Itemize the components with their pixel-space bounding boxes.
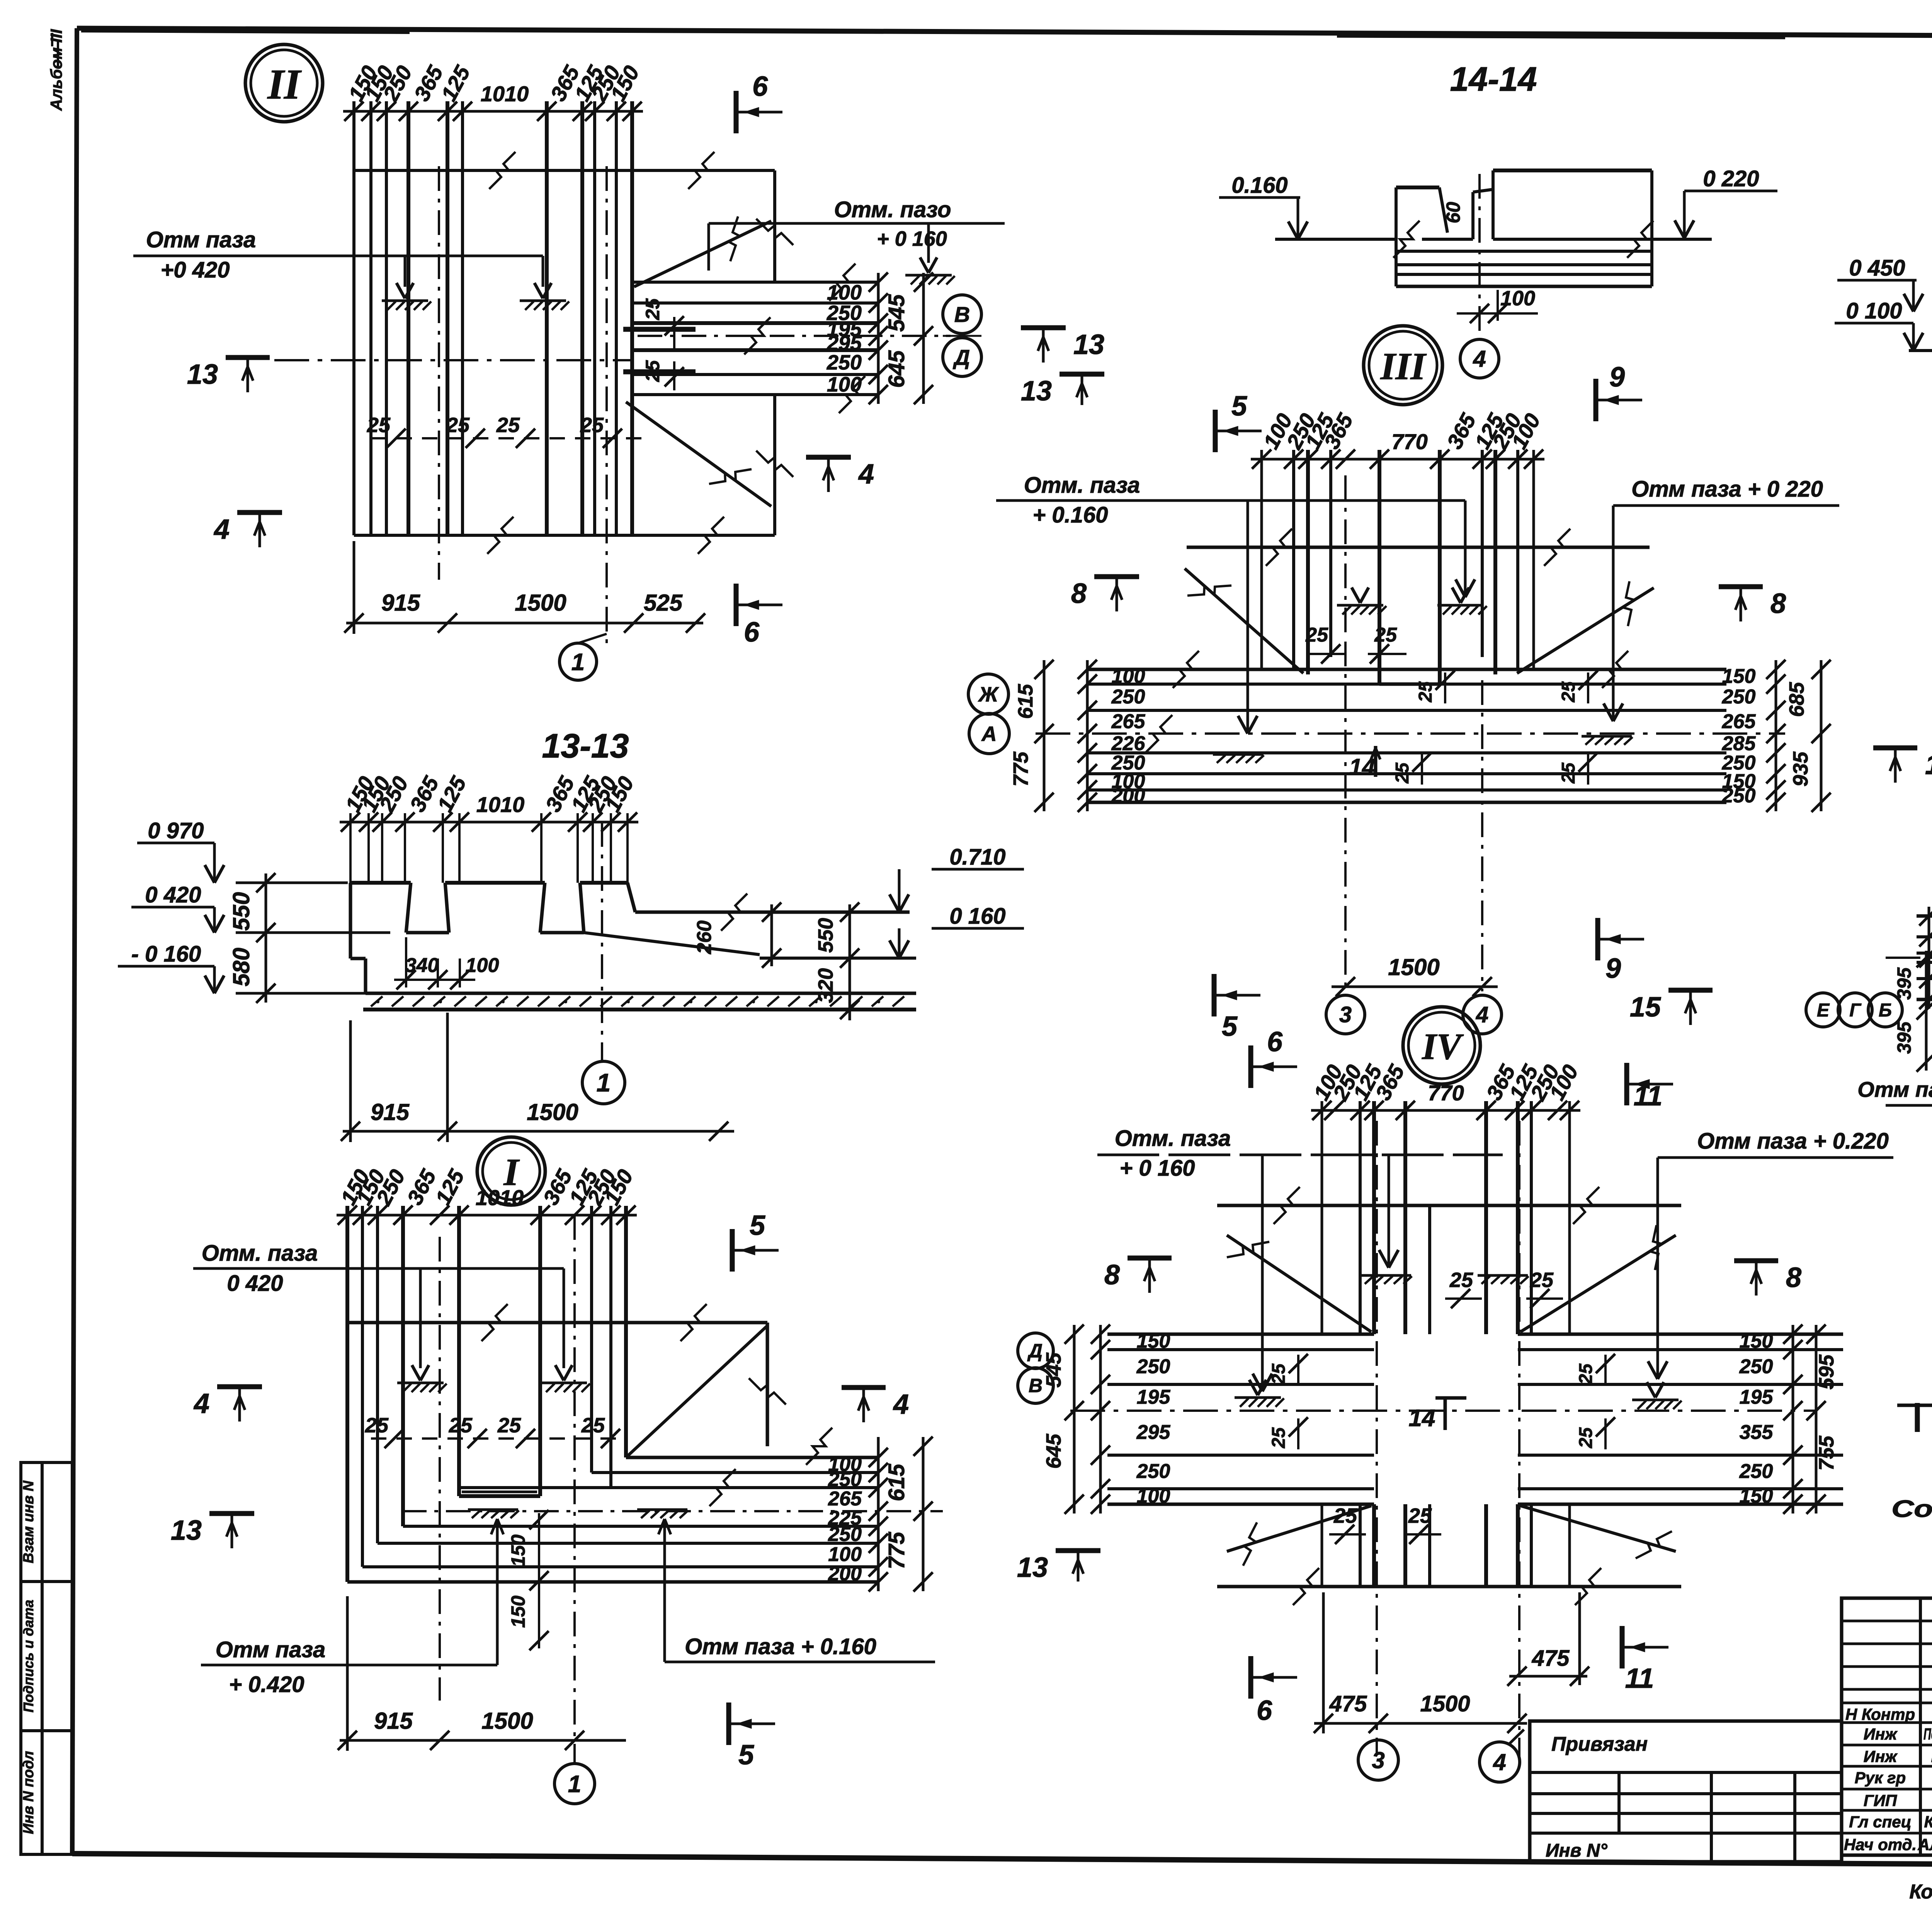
section marks around detail I (217, 1384, 262, 1389)
detail IV boundaries (1217, 1204, 1681, 1207)
svg-text:Н Контр: Н Контр (1845, 1705, 1915, 1723)
svg-text:100: 100 (466, 954, 499, 977)
svg-text:Совместно с данным см: Совместно с данным см л л КЖ-5,8 (1891, 1496, 1932, 1522)
svg-text:25: 25 (642, 298, 663, 320)
svg-text:Ж: Ж (978, 683, 999, 706)
svg-text:Отм паза: Отм паза (216, 1637, 325, 1662)
svg-text:8: 8 (1104, 1260, 1120, 1290)
svg-text:25: 25 (446, 414, 470, 437)
svg-text:+ 0.420: + 0.420 (229, 1672, 304, 1697)
svg-text:195: 195 (1137, 1386, 1171, 1408)
detail I right outer boundary and diagonal (766, 1323, 769, 1446)
svg-text:25: 25 (1408, 1504, 1432, 1527)
svg-text:150: 150 (507, 1595, 529, 1628)
detail V arm axis (1886, 957, 1932, 959)
svg-text:Б: Б (1879, 1000, 1892, 1021)
detail III arm band (1088, 668, 1726, 671)
svg-text:1500: 1500 (1420, 1691, 1470, 1716)
svg-text:+ 0.160: + 0.160 (1032, 502, 1108, 528)
svg-text:595: 595 (1815, 1354, 1838, 1389)
svg-text:340: 340 (405, 954, 439, 977)
svg-text:0.160: 0.160 (1231, 173, 1287, 198)
detail II right boundary (773, 170, 776, 282)
svg-text:4: 4 (893, 1389, 909, 1420)
title block: left attachment box (1530, 1721, 1842, 1862)
section 13-13 profile (350, 881, 411, 885)
svg-text:295: 295 (1136, 1421, 1171, 1444)
svg-text:6: 6 (752, 71, 768, 102)
svg-text:475: 475 (1329, 1691, 1367, 1716)
svg-text:25: 25 (1558, 681, 1579, 703)
svg-text:0 970: 0 970 (148, 818, 204, 843)
svg-text:200: 200 (828, 1563, 862, 1585)
section mark 6 (top) (734, 91, 739, 133)
detail I bottom dims 915/1500 (340, 1739, 626, 1742)
svg-text:1010: 1010 (481, 82, 529, 106)
svg-text:1: 1 (568, 1771, 581, 1798)
svg-text:Рук гр: Рук гр (1855, 1769, 1906, 1787)
svg-text:775: 775 (1009, 751, 1032, 787)
svg-text:5: 5 (1222, 1011, 1238, 1042)
svg-text:Отм паза + 0 220: Отм паза + 0 220 (1631, 477, 1823, 502)
section 13-13 bottom slab with hatching (366, 992, 916, 995)
svg-text:25: 25 (1576, 1427, 1596, 1449)
svg-text:Копир Лавругина: Копир Лавругина (1909, 1881, 1932, 1903)
section mark 6 (bottom) (734, 584, 739, 626)
svg-text:8: 8 (1786, 1262, 1801, 1293)
detail IV grid axes dash-dot (1376, 1121, 1378, 1755)
svg-text:250: 250 (1136, 1460, 1170, 1483)
svg-text:В: В (954, 302, 970, 327)
detail I axis dash-dot verticals (439, 1237, 441, 1701)
svg-text:1500: 1500 (527, 1099, 578, 1125)
detail I arm horizontals (626, 1456, 878, 1459)
svg-text:250: 250 (1739, 1355, 1773, 1378)
svg-text:Е: Е (1817, 1000, 1830, 1021)
grid bubbles 3 and 4 (1358, 1740, 1398, 1780)
detail IV arm bands (1107, 1333, 1374, 1336)
svg-text:525: 525 (644, 590, 683, 616)
svg-text:5: 5 (1231, 391, 1247, 422)
svg-text:13: 13 (171, 1515, 202, 1546)
svg-text:4: 4 (1476, 1002, 1488, 1027)
svg-text:+ 0 160: + 0 160 (1119, 1156, 1195, 1181)
detail II bottom boundary (354, 534, 775, 537)
top border scan smudge (81, 31, 410, 32)
grid bubble 4 (1460, 339, 1499, 378)
svg-text:1500: 1500 (1388, 954, 1439, 980)
detail I hatch marks bottom (468, 1508, 518, 1511)
svg-text:250: 250 (828, 1523, 862, 1546)
detail III right dim columns (1775, 660, 1777, 811)
svg-text:685: 685 (1785, 682, 1808, 717)
svg-text:0 420: 0 420 (227, 1271, 283, 1296)
svg-text:100: 100 (827, 281, 862, 304)
svg-text:Отм паза + 0.160: Отм паза + 0.160 (685, 1634, 876, 1659)
svg-text:14-14: 14-14 (1450, 60, 1537, 98)
svg-text:915: 915 (374, 1708, 413, 1734)
svg-text:Подпись и дата: Подпись и дата (20, 1600, 36, 1713)
svg-text:Отм. паза: Отм. паза (1024, 473, 1140, 498)
svg-text:150: 150 (507, 1534, 529, 1567)
detail V arm horizontals (1917, 914, 1932, 918)
section 13-13 right vertical dims 260/550/320 (770, 904, 773, 966)
svg-text:14: 14 (1409, 1405, 1435, 1432)
svg-text:Инв N°: Инв N° (1546, 1840, 1608, 1861)
svg-text:150: 150 (1137, 1330, 1170, 1352)
detail IV right dim columns (1792, 1325, 1794, 1514)
svg-text:13-13: 13-13 (542, 727, 629, 765)
svg-text:25: 25 (496, 414, 520, 437)
detail II bottom dimension 915/1500/525 (346, 622, 703, 625)
svg-text:Петропавловская: Петропавловская (1923, 1725, 1932, 1743)
detail II right arm horizontal lines (634, 281, 878, 284)
detail IV hatches (1361, 1274, 1411, 1277)
svg-text:550: 550 (814, 918, 837, 953)
svg-text:6: 6 (744, 617, 760, 648)
svg-text:Инж: Инж (1864, 1747, 1898, 1765)
svg-text:25: 25 (1305, 624, 1328, 646)
svg-text:25: 25 (367, 414, 391, 437)
svg-text:265: 265 (1722, 710, 1756, 733)
section marks around detail III (1213, 410, 1218, 452)
svg-text:200: 200 (1111, 785, 1145, 807)
left margin table (21, 1462, 72, 1854)
svg-text:25: 25 (581, 1414, 605, 1437)
svg-text:580: 580 (228, 948, 254, 986)
svg-text:4: 4 (1473, 346, 1486, 372)
svg-text:6: 6 (1257, 1695, 1272, 1726)
svg-text:4: 4 (193, 1388, 209, 1419)
svg-text:770: 770 (1391, 429, 1427, 454)
detail IV label circle (1403, 1007, 1480, 1084)
svg-text:25: 25 (642, 360, 663, 382)
detail I top dimension chain (337, 1214, 637, 1217)
svg-text:Отм. паза: Отм. паза (202, 1241, 318, 1266)
svg-text:1: 1 (597, 1068, 611, 1097)
svg-text:0 420: 0 420 (145, 882, 201, 907)
detail III slot hatches (1352, 587, 1360, 603)
grid axis 1 dash-dot (601, 822, 603, 1061)
detail III top boundary (1187, 546, 1650, 549)
section mark 4 (right of II) (806, 455, 851, 460)
row bubbles D V (1018, 1333, 1053, 1369)
detail III slot axis (1344, 475, 1347, 634)
svg-text:25: 25 (1269, 1427, 1289, 1449)
svg-text:755: 755 (1815, 1435, 1838, 1471)
svg-text:14: 14 (1925, 749, 1932, 780)
svg-text:615: 615 (1014, 684, 1037, 719)
detail III corner diagonals (1185, 569, 1303, 673)
detail I inner U floor (459, 1494, 540, 1498)
svg-text:5: 5 (738, 1740, 754, 1771)
svg-text:Отм паза + 0.220: Отм паза + 0.220 (1697, 1129, 1889, 1154)
svg-text:770: 770 (1428, 1081, 1464, 1105)
svg-text:+ 0 160: + 0 160 (877, 227, 947, 250)
detail I arm axis dash-dot (402, 1510, 943, 1512)
svg-text:5: 5 (750, 1210, 765, 1241)
svg-text:25: 25 (1530, 1268, 1554, 1292)
svg-text:II: II (267, 61, 302, 108)
svg-text:13: 13 (1073, 329, 1104, 360)
svg-text:IV: IV (1422, 1026, 1464, 1067)
section 14-14 ground line (1275, 238, 1396, 241)
detail V arm dim column (1928, 907, 1930, 1009)
detail III bottom dim 1500 (1332, 986, 1498, 988)
detail II corner diagonals (634, 221, 771, 287)
svg-text:25: 25 (365, 1414, 389, 1437)
row bubbles V and D (943, 295, 981, 334)
svg-text:1010: 1010 (476, 792, 525, 817)
svg-text:А: А (981, 722, 997, 746)
svg-text:9: 9 (1605, 953, 1621, 984)
detail II wall plan vertical lines (352, 101, 355, 535)
svg-text:100: 100 (1112, 665, 1145, 688)
svg-text:9: 9 (1609, 362, 1625, 393)
svg-text:25: 25 (449, 1414, 473, 1437)
detail III stem verticals (1292, 450, 1295, 669)
svg-text:475: 475 (1532, 1646, 1570, 1671)
svg-text:13: 13 (1021, 376, 1052, 407)
svg-text:3: 3 (1339, 1002, 1352, 1027)
svg-text:250: 250 (1111, 686, 1145, 708)
section 13-13 left vertical dims 550/580 (265, 873, 267, 1003)
section 14-14 profile (1395, 187, 1398, 239)
detail III left dim columns (1043, 660, 1046, 811)
detail I label circle (477, 1137, 545, 1205)
svg-text:ГИП: ГИП (1864, 1791, 1897, 1810)
svg-text:150: 150 (1722, 665, 1756, 688)
svg-text:250: 250 (827, 351, 862, 374)
svg-text:13: 13 (1017, 1552, 1048, 1583)
section 13-13 groove dims 340/100 (405, 937, 407, 987)
svg-text:550: 550 (228, 892, 254, 931)
svg-text:250: 250 (1722, 686, 1756, 708)
grid axes dash-dot (1344, 642, 1347, 991)
detail II top dimension chain (343, 110, 643, 113)
svg-text:395: 395 (1893, 967, 1915, 1000)
detail I outer walls (345, 1206, 349, 1582)
detail III slot floor (1379, 683, 1440, 686)
svg-text:Отм. пазо: Отм. пазо (834, 197, 951, 222)
detail II arm dimension column (877, 273, 880, 404)
grid bubbles 3 and 4 (1326, 995, 1365, 1034)
detail IV bottom dims (1314, 1722, 1527, 1725)
svg-text:260: 260 (693, 921, 716, 955)
section mark po 14 (right) (1915, 1403, 1920, 1432)
svg-text:25: 25 (1333, 1504, 1357, 1527)
svg-text:Д: Д (953, 345, 970, 369)
svg-text:В: В (1029, 1375, 1043, 1396)
row bubbles Zh and A (968, 674, 1009, 714)
svg-text:395: 395 (1893, 1021, 1915, 1054)
svg-text:0.710: 0.710 (949, 844, 1005, 870)
svg-text:1500: 1500 (515, 590, 566, 616)
svg-text:100: 100 (1137, 1485, 1170, 1507)
section 13-13 top dim chain (340, 821, 638, 824)
svg-text:775: 775 (884, 1532, 909, 1570)
detail II centerline (274, 359, 634, 361)
svg-text:25: 25 (1374, 624, 1397, 646)
svg-text:25: 25 (1576, 1363, 1596, 1385)
svg-text:25: 25 (1558, 762, 1579, 784)
svg-text:915: 915 (371, 1099, 410, 1125)
svg-text:25: 25 (580, 414, 604, 437)
svg-text:Отм. паза: Отм. паза (1115, 1126, 1231, 1151)
svg-text:935: 935 (1789, 751, 1812, 787)
detail II 25-gap dimensions (371, 437, 641, 439)
svg-text:III: III (1380, 345, 1427, 388)
svg-text:320: 320 (814, 968, 837, 1003)
svg-text:150: 150 (1740, 1330, 1773, 1352)
svg-text:4: 4 (858, 459, 874, 490)
svg-text:25: 25 (1415, 681, 1436, 703)
detail II arm axis dash-dot (638, 335, 951, 337)
svg-text:1010: 1010 (476, 1185, 524, 1210)
395/395 vertical dims (1925, 951, 1928, 1071)
svg-text:Привязан: Привязан (1551, 1733, 1648, 1755)
svg-text:Взам инв N: Взам инв N (20, 1480, 37, 1563)
detail I 25 gap dims (371, 1437, 626, 1440)
grid bubble 1 (582, 1061, 625, 1104)
svg-text:25: 25 (1449, 1268, 1473, 1292)
grid bubble 1 (560, 643, 597, 680)
detail IV horizontal axis dash-dot (1070, 1410, 1816, 1412)
svg-text:0 450: 0 450 (1849, 255, 1905, 281)
svg-text:Д: Д (1027, 1340, 1043, 1362)
section 14-14 slab lines (1396, 250, 1652, 253)
svg-text:0 100: 0 100 (1846, 298, 1902, 323)
detail II label circle (245, 44, 323, 122)
svg-text:250: 250 (1136, 1355, 1170, 1378)
svg-text:11: 11 (1625, 1663, 1654, 1694)
svg-text:60: 60 (1442, 202, 1464, 223)
svg-text:Отм паза: Отм паза (146, 227, 256, 252)
detail II centre dash-dot axes (438, 166, 440, 580)
svg-text:150: 150 (1740, 1485, 1773, 1507)
svg-text:3: 3 (1372, 1747, 1384, 1773)
svg-text:Отм пазо +0.100: Отм пазо +0.100 (1857, 1077, 1932, 1102)
svg-text:195: 195 (1740, 1386, 1774, 1408)
svg-text:- 0 160: - 0 160 (131, 941, 201, 967)
svg-text:1500: 1500 (481, 1708, 533, 1734)
svg-text:100: 100 (827, 373, 862, 396)
svg-text:4: 4 (213, 514, 230, 545)
svg-text:1: 1 (571, 649, 585, 676)
title block: central signature table (1842, 1598, 1932, 1855)
svg-text:915: 915 (381, 590, 421, 616)
svg-text:Козловичер: Козловичер (1924, 1813, 1932, 1831)
sheet frame border (77, 28, 1932, 38)
section mark 13 (left) (226, 355, 270, 360)
detail I arm right dim column (877, 1437, 880, 1591)
svg-text:8: 8 (1770, 588, 1786, 619)
detail IV corner diagonals (1227, 1235, 1371, 1332)
detail IV top dimension chain (1311, 1109, 1580, 1112)
svg-text:Альтшуллер: Альтшуллер (1917, 1835, 1932, 1854)
svg-text:355: 355 (1740, 1421, 1774, 1444)
svg-text:11: 11 (1634, 1081, 1663, 1112)
svg-text:4: 4 (1493, 1749, 1506, 1775)
svg-text:545: 545 (884, 294, 909, 332)
svg-text:645: 645 (1042, 1433, 1065, 1469)
grid bubble 1 (554, 1764, 595, 1804)
svg-text:13: 13 (187, 359, 218, 390)
svg-text:+0 420: +0 420 (160, 257, 230, 283)
svg-text:Инв N подл: Инв N подл (20, 1751, 37, 1834)
svg-text:250: 250 (1722, 785, 1756, 807)
svg-text:250: 250 (1739, 1460, 1773, 1483)
section marks around detail IV (1248, 1045, 1253, 1088)
detail IV stem centre lines full height (1428, 1205, 1431, 1334)
detail IV left dim columns (1073, 1325, 1076, 1514)
detail III arm axis (1036, 732, 1785, 735)
svg-text:15: 15 (1630, 992, 1661, 1023)
svg-text:Инж: Инж (1864, 1725, 1898, 1743)
svg-text:0 220: 0 220 (1703, 166, 1759, 191)
svg-text:Альбом III: Альбом III (47, 29, 65, 111)
section mark 13 (right of II) (1021, 325, 1066, 330)
section 13-13 chain extension lines (349, 813, 352, 883)
detail IV stem verticals (1359, 1101, 1362, 1334)
svg-text:0 160: 0 160 (949, 904, 1005, 929)
detail III top dimension chain (1251, 458, 1544, 461)
svg-text:Г: Г (1849, 1000, 1862, 1021)
svg-text:615: 615 (884, 1464, 909, 1502)
svg-text:Гл спец: Гл спец (1849, 1813, 1911, 1831)
section 13-13 bottom dims 915/1500 (343, 1130, 734, 1133)
svg-text:25: 25 (1392, 762, 1413, 784)
svg-text:Нач отд.: Нач отд. (1844, 1835, 1917, 1854)
svg-text:645: 645 (884, 350, 909, 388)
svg-text:265: 265 (1111, 710, 1146, 733)
detail II top boundary (354, 169, 775, 172)
detail I top boundary (347, 1321, 767, 1325)
svg-text:6: 6 (1267, 1027, 1283, 1057)
section mark 4 (left) (237, 510, 282, 515)
svg-text:8: 8 (1071, 578, 1087, 609)
row bubbles E G B (1806, 993, 1840, 1027)
detail III label circle (1364, 326, 1442, 405)
svg-text:25: 25 (497, 1414, 521, 1437)
